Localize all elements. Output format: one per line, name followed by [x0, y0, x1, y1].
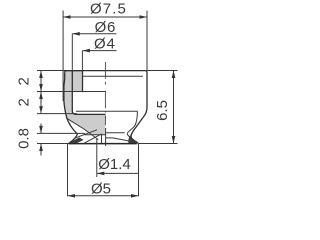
svg-text:Ø1.4: Ø1.4	[98, 156, 131, 173]
svg-text:Ø5: Ø5	[91, 181, 111, 198]
svg-text:2: 2	[16, 98, 33, 106]
svg-text:0.8: 0.8	[16, 128, 33, 149]
svg-text:Ø6: Ø6	[95, 19, 117, 36]
svg-text:Ø7.5: Ø7.5	[90, 1, 127, 18]
svg-text:6.5: 6.5	[154, 100, 171, 121]
svg-text:2: 2	[16, 77, 33, 85]
svg-text:Ø4: Ø4	[94, 36, 116, 53]
